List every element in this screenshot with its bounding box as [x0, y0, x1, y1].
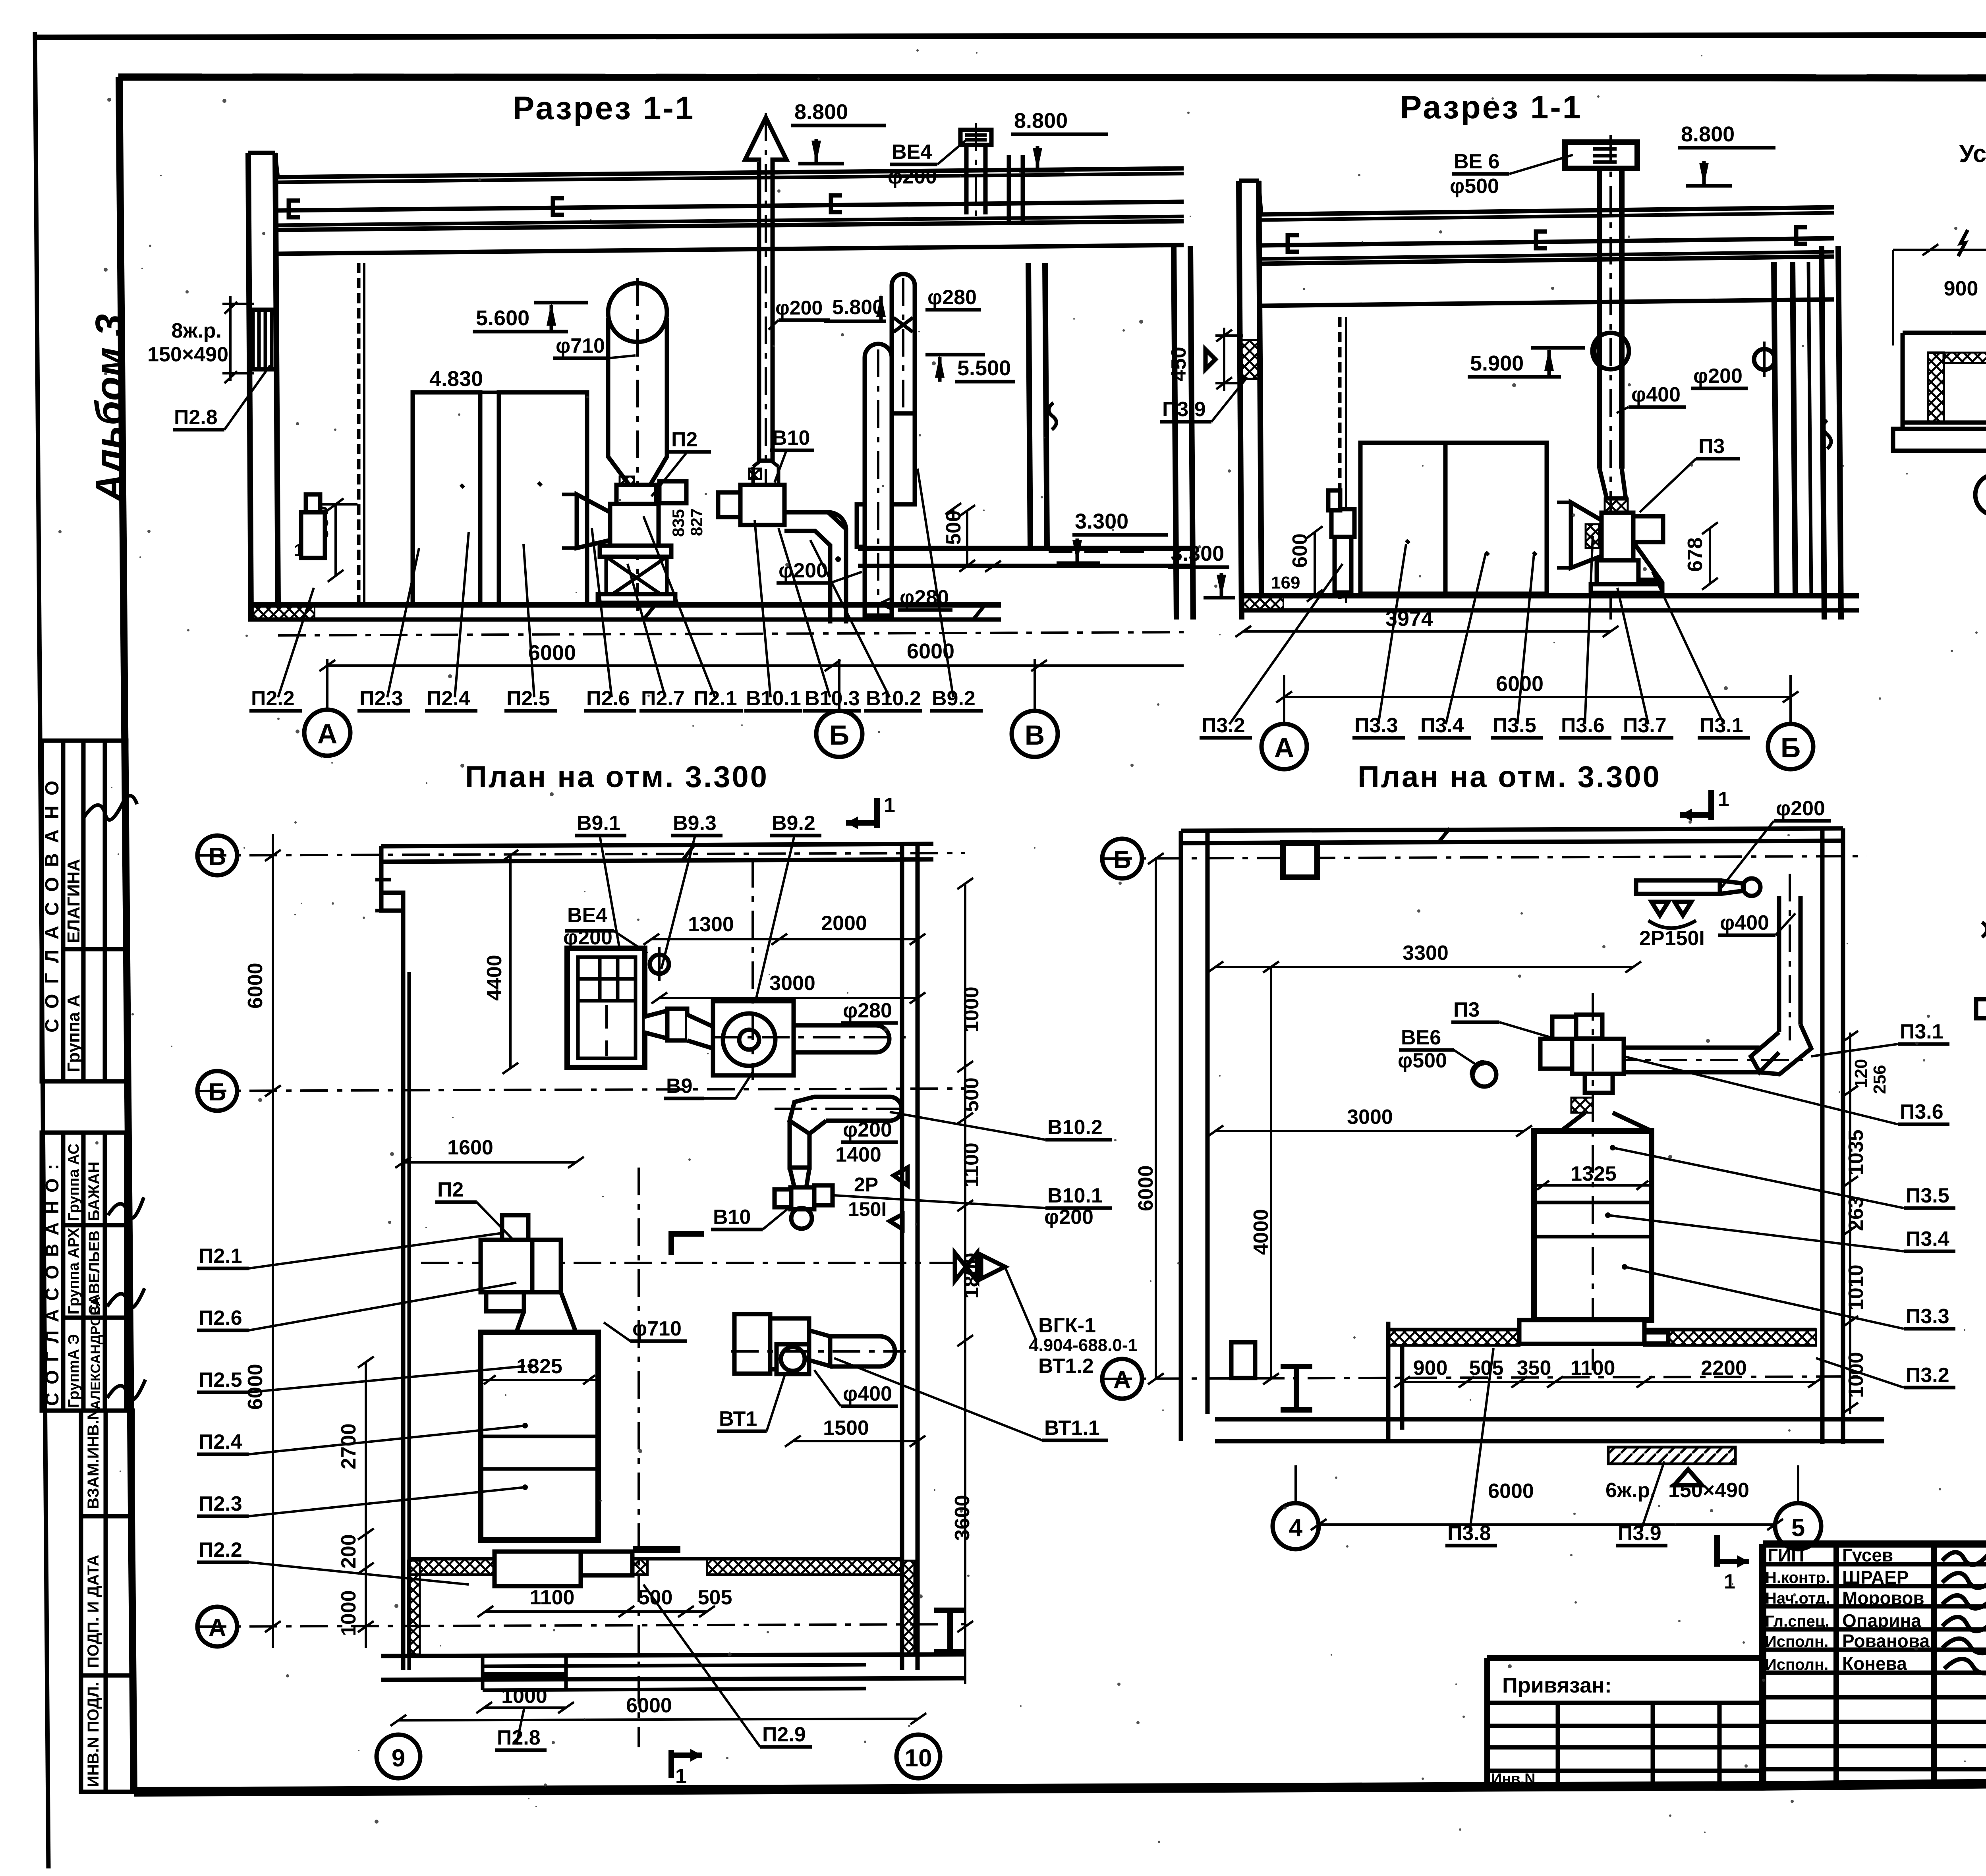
svg-text:Б: Б — [1781, 732, 1801, 763]
svg-text:3300: 3300 — [1403, 942, 1449, 965]
В9 connector cone — [645, 1011, 667, 1038]
svg-text:В10.1: В10.1 — [746, 687, 801, 710]
svg-text:5.600: 5.600 — [476, 306, 529, 330]
inlet cone left of fan — [577, 494, 610, 548]
svg-text:6000: 6000 — [1488, 1480, 1534, 1503]
stack cone to fan — [1600, 469, 1626, 498]
axis А circle — [304, 710, 350, 756]
dim 500 near floor — [945, 503, 1001, 572]
signature table grid — [1833, 1544, 1839, 1786]
middle wall column — [1028, 263, 1030, 548]
svg-text:Моровов: Моровов — [1842, 1588, 1924, 1608]
svg-text:Нач.отд.: Нач.отд. — [1765, 1590, 1830, 1607]
svg-text:П2.8: П2.8 — [174, 406, 218, 429]
2Р150I marks — [1652, 902, 1691, 915]
svg-text:150×490: 150×490 — [147, 343, 228, 366]
svg-text:П2.5: П2.5 — [506, 687, 550, 710]
svg-text:Альбом 3: Альбом 3 — [87, 314, 132, 504]
svg-text:φ400: φ400 — [1720, 911, 1769, 934]
svg-text:БАЖАН: БАЖАН — [85, 1162, 103, 1221]
svg-text:6000: 6000 — [244, 963, 267, 1009]
section mark 1 bottom — [668, 1750, 674, 1778]
approval table lower (СОГЛАСОВАНО: Бажан, Савельев, Александрова) — [42, 1133, 126, 1411]
exhaust stack with arrow (В10 duct) — [745, 118, 786, 461]
svg-text:1400: 1400 — [835, 1143, 881, 1166]
stack flange circle — [1592, 333, 1629, 369]
axis А circle — [197, 1607, 237, 1646]
section mark 1 top — [1708, 790, 1714, 820]
dim 3974 — [1243, 630, 1611, 633]
В10 elbow duct assembly — [814, 1097, 902, 1121]
break marks — [1982, 803, 1986, 937]
svg-text:В9.2: В9.2 — [772, 812, 815, 835]
svg-text:ИНВ.N ПОДЛ.: ИНВ.N ПОДЛ. — [85, 1682, 102, 1787]
svg-text:Привязан:: Привязан: — [1502, 1673, 1612, 1697]
svg-text:ЕЛАГИНА: ЕЛАГИНА — [64, 859, 83, 943]
dim 6000 bottom — [1319, 1523, 1775, 1526]
channel symbol 1 — [289, 201, 300, 217]
svg-text:1100: 1100 — [1571, 1357, 1615, 1380]
svg-text:П3.3: П3.3 — [1354, 714, 1398, 737]
svg-text:П2.4: П2.4 — [427, 687, 470, 710]
svg-text:Гл.спец.: Гл.спец. — [1765, 1613, 1830, 1630]
П2 base in wall — [495, 1552, 581, 1586]
svg-text:8.800: 8.800 — [1681, 122, 1735, 146]
svg-text:ГИП: ГИП — [1768, 1545, 1804, 1565]
wall column notch — [381, 893, 403, 911]
svg-text:3000: 3000 — [769, 972, 815, 995]
axis 4 circle — [1273, 1503, 1319, 1549]
top wall — [1181, 828, 1843, 831]
right wall — [1820, 828, 1825, 1444]
channel symbol 1 — [1288, 235, 1299, 252]
svg-text:В: В — [1025, 720, 1045, 751]
svg-text:263: 263 — [1845, 1197, 1868, 1231]
П3 base in wall — [1519, 1320, 1644, 1344]
ВЕ6 stack duct — [1597, 168, 1602, 469]
axis А circle — [1262, 724, 1307, 769]
svg-text:Б: Б — [829, 720, 849, 751]
П3 cyclone plan — [1534, 1131, 1652, 1320]
П3 flex connector — [1571, 1098, 1593, 1113]
svg-text:1010: 1010 — [1845, 1264, 1868, 1310]
ВТ1 unit — [734, 1314, 770, 1374]
axis А line — [199, 1624, 965, 1627]
svg-text:П2: П2 — [671, 428, 697, 451]
svg-text:200: 200 — [337, 1534, 360, 1569]
section mark 1 top — [874, 798, 880, 828]
roof slab lines — [278, 168, 1184, 177]
channel symbol 2 — [553, 198, 564, 215]
small unit П3.2 — [1331, 509, 1354, 537]
axis Б circle — [1102, 839, 1142, 878]
П2 transition — [516, 1292, 576, 1332]
axis Б line — [1104, 856, 1867, 859]
axis 5 circle — [1775, 1503, 1821, 1549]
svg-text:6000: 6000 — [626, 1694, 672, 1717]
svg-text:П3.2: П3.2 — [1202, 714, 1245, 737]
svg-text:1035: 1035 — [1845, 1129, 1868, 1175]
svg-text:150×490: 150×490 — [1668, 1479, 1749, 1502]
svg-text:Группа АС: Группа АС — [66, 1144, 82, 1221]
svg-text:4.904-688.0-1: 4.904-688.0-1 — [1029, 1336, 1138, 1355]
svg-text:В10: В10 — [713, 1206, 751, 1229]
svg-text:П3.9: П3.9 — [1618, 1522, 1661, 1545]
П3 fan group — [1552, 1017, 1576, 1039]
dim 3000 — [659, 997, 918, 999]
insulation band — [1943, 353, 1986, 363]
svg-text:2700: 2700 — [337, 1423, 360, 1469]
svg-text:3000: 3000 — [1347, 1106, 1393, 1129]
horizontal duct to П3 — [1624, 1048, 1760, 1072]
svg-text:Разрез 1-1: Разрез 1-1 — [1400, 89, 1582, 125]
svg-text:1500: 1500 — [823, 1417, 869, 1440]
svg-text:835: 835 — [669, 509, 688, 537]
svg-text:Исполн.: Исполн. — [1765, 1633, 1828, 1650]
В9 discharge duct to right — [794, 1025, 889, 1052]
ВЕ4 roof cowl — [960, 130, 991, 145]
svg-text:150I: 150I — [848, 1198, 887, 1220]
svg-text:П3.6: П3.6 — [1900, 1100, 1943, 1123]
svg-text:П3.5: П3.5 — [1906, 1184, 1949, 1207]
axis А circle — [1102, 1359, 1142, 1399]
lower margin boxes — [81, 1411, 133, 1792]
svg-text:φ200: φ200 — [843, 1118, 892, 1141]
svg-text:1: 1 — [1718, 788, 1729, 811]
top exterior wall — [381, 844, 933, 846]
inner frame left — [119, 77, 134, 1792]
svg-text:АЛЕКСАНДРОВА: АЛЕКСАНДРОВА — [88, 1297, 103, 1410]
top dimension line — [1893, 249, 1986, 251]
right wall of plan — [900, 844, 904, 1670]
svg-text:ВГК-1: ВГК-1 — [1038, 1314, 1096, 1337]
svg-text:256: 256 — [1870, 1065, 1889, 1094]
inner frame top — [118, 77, 1986, 78]
left dim chain В-Б-А — [272, 834, 274, 1648]
svg-text:П2.9: П2.9 — [762, 1723, 806, 1746]
I-beam symbol — [1281, 1366, 1312, 1410]
left dims 6000 / 4000 — [1155, 859, 1157, 1379]
svg-text:Н.контр.: Н.контр. — [1765, 1569, 1830, 1586]
svg-text:9: 9 — [392, 1745, 405, 1772]
svg-text:φ710: φ710 — [632, 1317, 682, 1340]
left wall column — [1239, 181, 1242, 620]
svg-text:П2: П2 — [437, 1178, 464, 1201]
svg-text:Опарина: Опарина — [1842, 1610, 1921, 1631]
svg-text:1000: 1000 — [501, 1685, 547, 1708]
right wall columns — [1174, 246, 1177, 620]
svg-text:П2.4: П2.4 — [199, 1430, 242, 1453]
base slab — [1215, 1417, 1884, 1422]
svg-text:П3.5: П3.5 — [1493, 714, 1536, 737]
lower lines — [1903, 421, 1986, 425]
svg-text:А: А — [209, 1614, 226, 1642]
svg-text:1000: 1000 — [337, 1590, 360, 1636]
svg-text:П3: П3 — [1453, 998, 1480, 1021]
svg-text:План на отм. 3.300: План на отм. 3.300 — [465, 760, 769, 794]
svg-text:φ200: φ200 — [888, 165, 937, 188]
svg-text:8ж.р.: 8ж.р. — [172, 319, 222, 342]
svg-text:169: 169 — [1271, 573, 1300, 593]
svg-text:350: 350 — [1517, 1357, 1551, 1380]
wall end hatched piers — [408, 1561, 420, 1654]
В9 fan volute — [713, 1001, 794, 1075]
svg-text:φ200: φ200 — [775, 297, 823, 319]
supply unit boxes — [413, 392, 480, 605]
svg-text:П3.1: П3.1 — [1900, 1020, 1943, 1043]
hatched flex connector — [620, 477, 634, 486]
svg-text:Гусев: Гусев — [1842, 1545, 1893, 1565]
svg-text:1: 1 — [884, 794, 895, 817]
svg-text:П3.8: П3.8 — [1447, 1522, 1491, 1545]
svg-text:10: 10 — [905, 1745, 932, 1772]
svg-text:ГрупmА Э: ГрупmА Э — [66, 1334, 82, 1408]
svg-text:ВТ1.1: ВТ1.1 — [1044, 1417, 1100, 1440]
svg-text:Исполн.: Исполн. — [1765, 1656, 1828, 1673]
svg-text:2Р: 2Р — [854, 1173, 878, 1196]
svg-text:В10.2: В10.2 — [1047, 1116, 1103, 1139]
axis Б circle — [197, 1071, 237, 1111]
svg-text:С О Г Л А С О В А Н О: С О Г Л А С О В А Н О — [42, 778, 63, 1033]
svg-text:φ500: φ500 — [1398, 1049, 1447, 1072]
axis В circle — [197, 836, 237, 875]
wall liner strip — [1338, 317, 1342, 603]
svg-text:Разрез 1-1: Разрез 1-1 — [513, 90, 695, 126]
dims 1100 500 505 — [485, 1610, 707, 1613]
П3 transition — [1561, 1113, 1652, 1131]
svg-text:П2.3: П2.3 — [199, 1492, 242, 1515]
break squiggle on wall — [1049, 403, 1056, 430]
dimension line 6000 — [1284, 696, 1791, 698]
grille bar 6ж.р. — [1608, 1447, 1735, 1464]
svg-text:1600: 1600 — [447, 1136, 493, 1159]
right dim chain — [1849, 1033, 1851, 1414]
approval table upper (СОГЛАСОВАНО Елагина) — [42, 741, 126, 1081]
svg-text:1: 1 — [1724, 1570, 1735, 1593]
svg-text:ВЕ4: ВЕ4 — [567, 904, 607, 927]
svg-text:φ280: φ280 — [900, 586, 949, 609]
svg-text:120: 120 — [1851, 1059, 1871, 1088]
svg-text:5.800: 5.800 — [832, 296, 884, 319]
wall grille П3.9 — [1241, 340, 1259, 379]
duct top line — [1903, 331, 1986, 335]
base slab — [381, 1654, 965, 1656]
axis В line — [199, 853, 965, 855]
svg-text:П2.1: П2.1 — [199, 1245, 242, 1268]
break marks — [1958, 230, 1986, 436]
sheet outer border left — [35, 32, 48, 1868]
svg-text:φ200: φ200 — [1693, 365, 1743, 388]
dimension line 6000+6000 — [327, 664, 1184, 667]
svg-text:5.900: 5.900 — [1470, 351, 1524, 375]
svg-text:4.830: 4.830 — [429, 367, 483, 391]
svg-text:В9.1: В9.1 — [577, 812, 620, 835]
bottom insulated wall — [1388, 1330, 1519, 1345]
dim 1600 — [403, 1161, 576, 1164]
svg-text:6000: 6000 — [528, 641, 576, 665]
channel symbol 3 — [1796, 227, 1807, 244]
svg-text:φ280: φ280 — [843, 999, 892, 1022]
П2 fan group — [502, 1215, 528, 1240]
left interior wall line — [401, 911, 406, 1670]
svg-text:ПОДП. И ДАТА: ПОДП. И ДАТА — [85, 1555, 102, 1668]
svg-text:505: 505 — [1469, 1357, 1504, 1380]
svg-text:450: 450 — [1167, 347, 1190, 381]
dims bottom row — [1402, 1381, 1816, 1383]
П3 fan block — [1602, 513, 1633, 560]
signature scribble — [83, 796, 137, 820]
dim 4400 vertical — [509, 855, 512, 1068]
svg-text:П2.6: П2.6 — [586, 687, 630, 710]
break mark on floor — [643, 605, 985, 620]
small column bottom left — [1231, 1342, 1255, 1378]
svg-text:План на отм. 3.300: План на отм. 3.300 — [1358, 760, 1661, 794]
svg-text:900: 900 — [1944, 277, 1978, 300]
sheet outer border top — [34, 34, 1986, 37]
svg-text:8.800: 8.800 — [794, 100, 848, 124]
axis 4 circle + к оси — [1975, 474, 1986, 515]
svg-text:6000: 6000 — [244, 1364, 267, 1410]
dims 1300 2000 — [651, 938, 918, 940]
svg-text:Установка утепленной засло: Установка утепленной заслонки при — [1959, 140, 1986, 168]
svg-text:6000: 6000 — [1134, 1165, 1157, 1211]
svg-text:П2.6: П2.6 — [199, 1307, 242, 1330]
left wall vertical — [1928, 353, 1944, 423]
dim chain right side — [964, 884, 966, 1684]
axis А line — [1104, 1376, 1867, 1379]
svg-text:4400: 4400 — [483, 955, 506, 1001]
П2 axis centerlines — [421, 1262, 965, 1264]
base slabs — [1893, 429, 1986, 451]
section mark 1 bottom — [1714, 1535, 1720, 1567]
axis 9 circle — [377, 1735, 420, 1778]
svg-text:2200: 2200 — [1701, 1357, 1747, 1380]
signatures scribbles column — [1942, 1552, 1986, 1673]
svg-text:Инв.N: Инв.N — [1491, 1771, 1536, 1787]
φ200 pipe top — [1636, 880, 1720, 894]
svg-text:П3.2: П3.2 — [1906, 1364, 1949, 1387]
svg-text:5.500: 5.500 — [957, 356, 1011, 380]
section corner mark — [671, 1234, 704, 1255]
floor line — [248, 602, 1001, 608]
svg-text:В9: В9 — [666, 1075, 692, 1098]
axis В circle — [1012, 711, 1058, 757]
small pedestal at wall — [301, 512, 325, 558]
В10 discharge duct with elbow — [784, 512, 846, 623]
svg-text:П3.3: П3.3 — [1906, 1305, 1949, 1328]
signatures scribbles — [107, 1197, 145, 1400]
svg-text:П2.3: П2.3 — [359, 687, 403, 710]
svg-text:1: 1 — [675, 1765, 687, 1788]
svg-text:827: 827 — [687, 508, 706, 536]
svg-text:6ж.р.: 6ж.р. — [1605, 1479, 1656, 1502]
svg-text:900: 900 — [1413, 1357, 1448, 1380]
svg-text:П3: П3 — [1698, 435, 1725, 458]
dim 1000 / 6000 bottom — [484, 1706, 566, 1709]
svg-text:1300: 1300 — [688, 913, 734, 936]
ВГК-1 valve symbol — [955, 1253, 977, 1281]
svg-text:1100: 1100 — [960, 1143, 983, 1187]
floor line — [1239, 593, 1859, 598]
right vertical duct with elbow — [1777, 896, 1781, 1032]
svg-text:В10.1: В10.1 — [1047, 1184, 1103, 1207]
svg-text:В10.3: В10.3 — [805, 687, 860, 710]
svg-text:φ710: φ710 — [556, 334, 605, 357]
cyclone П2 circle top — [608, 283, 667, 342]
channel symbol 3 — [831, 195, 842, 212]
svg-text:φ500: φ500 — [1450, 175, 1499, 198]
channel symbol 2 — [1536, 232, 1547, 248]
louver grille 8ж.р.150х490 — [253, 310, 276, 369]
svg-text:ВЕ4: ВЕ4 — [892, 141, 932, 164]
ВЕ4 stub circle — [650, 955, 669, 974]
base slabs — [1976, 999, 1986, 1018]
left inner dims — [365, 1362, 367, 1648]
svg-text:Б: Б — [209, 1079, 226, 1106]
svg-text:Б: Б — [1113, 846, 1131, 874]
svg-text:В9.3: В9.3 — [673, 812, 717, 835]
svg-text:φ280: φ280 — [927, 286, 977, 309]
heater unit ВЕ4 — [567, 948, 645, 1067]
svg-text:φ400: φ400 — [843, 1382, 892, 1405]
svg-text:8.800: 8.800 — [1014, 109, 1068, 133]
svg-text:П2.2: П2.2 — [251, 687, 295, 710]
svg-text:П3.9: П3.9 — [1162, 398, 1206, 421]
svg-text:ВЗАМ.ИНВ.N: ВЗАМ.ИНВ.N — [85, 1409, 102, 1509]
top wall break — [683, 844, 695, 859]
filter boxes — [1360, 443, 1445, 594]
attachment box Привязан — [1487, 1655, 1763, 1661]
svg-text:500: 500 — [638, 1586, 673, 1609]
axis 10 circle — [896, 1735, 940, 1778]
svg-text:3600: 3600 — [951, 1495, 974, 1541]
svg-text:φ200: φ200 — [1776, 797, 1825, 820]
inlet cone left of П3 fan — [1571, 502, 1602, 568]
roof slab lines — [1262, 207, 1834, 214]
svg-text:В10: В10 — [772, 427, 810, 450]
svg-text:А: А — [1113, 1366, 1131, 1394]
svg-text:φ200: φ200 — [1044, 1206, 1093, 1229]
svg-text:В9.2: В9.2 — [932, 687, 976, 710]
I-beam symbol — [934, 1610, 966, 1652]
top wall box — [1283, 843, 1317, 877]
svg-text:П2.1: П2.1 — [694, 687, 737, 710]
svg-text:Группа А: Группа А — [64, 994, 83, 1072]
svg-text:П3.7: П3.7 — [1623, 714, 1667, 737]
svg-text:П3.6: П3.6 — [1561, 714, 1605, 737]
svg-text:П2.5: П2.5 — [199, 1368, 242, 1392]
svg-text:500: 500 — [960, 1077, 983, 1112]
svg-text:1100: 1100 — [530, 1586, 575, 1609]
svg-text:Конева: Конева — [1842, 1653, 1907, 1674]
left wall column — [248, 153, 251, 620]
svg-text:ВТ1: ВТ1 — [719, 1407, 757, 1430]
second roof stub — [1007, 155, 1011, 222]
bottom insulated wall — [409, 1559, 647, 1575]
dim 3000 — [1215, 1130, 1524, 1132]
svg-text:Группа АРХ.: Группа АРХ. — [66, 1224, 82, 1314]
dim 3300 — [1215, 966, 1633, 968]
П2 cyclone plan — [481, 1332, 598, 1540]
svg-text:В10.2: В10.2 — [866, 687, 921, 710]
axis Б line — [199, 1089, 965, 1091]
svg-text:3.300: 3.300 — [1075, 510, 1128, 533]
svg-text:5: 5 — [1791, 1514, 1805, 1542]
svg-text:ВТ1.2: ВТ1.2 — [1038, 1355, 1094, 1378]
svg-text:505: 505 — [698, 1586, 732, 1609]
svg-text:φ400: φ400 — [1631, 383, 1681, 406]
svg-text:С О Г Л А С О В А Н О :: С О Г Л А С О В А Н О : — [42, 1162, 62, 1406]
